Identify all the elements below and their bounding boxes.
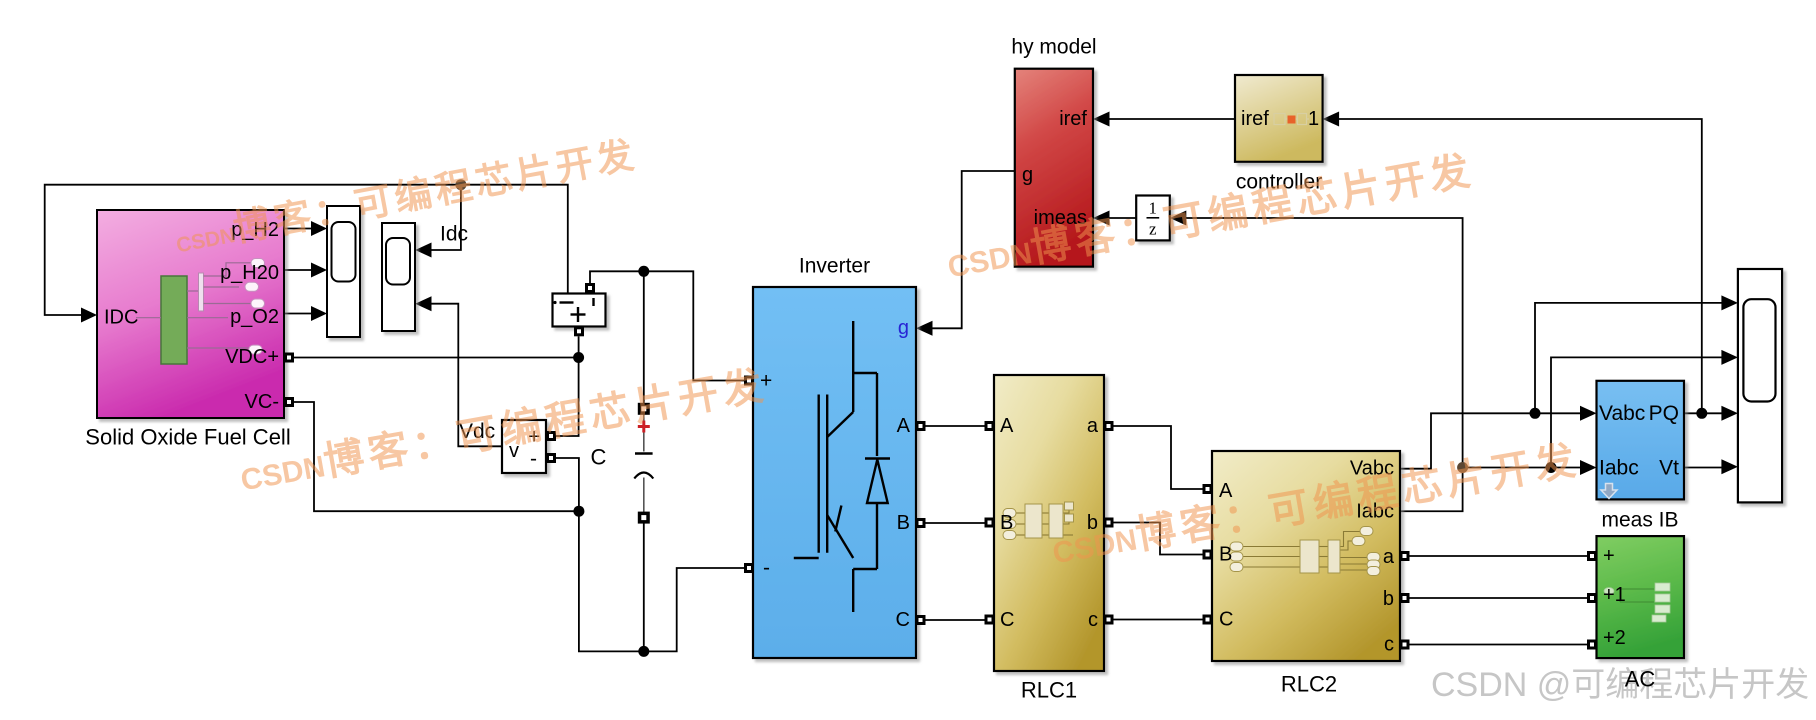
ammeter body bbox=[553, 294, 606, 327]
port RLC2 A bbox=[1203, 484, 1213, 494]
node Idc junction bbox=[455, 179, 466, 190]
wire PQ to scope bbox=[1684, 412, 1722, 414]
ammeter icon bbox=[560, 298, 594, 322]
RLC2 icon bbox=[1230, 527, 1380, 576]
watermark D bbox=[1049, 440, 1584, 574]
wire p_H20 bbox=[284, 269, 312, 271]
scope3 screen bbox=[1743, 299, 1775, 401]
wire Vabc to scope bbox=[1535, 303, 1722, 413]
wire Iabc to scope bbox=[1551, 357, 1722, 467]
arrow scope1 in1 bbox=[311, 221, 327, 236]
node Iabc junction 1 bbox=[1457, 462, 1468, 473]
arrow meas Iabc bbox=[1580, 460, 1597, 475]
svg-text:-: - bbox=[763, 557, 770, 580]
port RLC1 B bbox=[985, 518, 995, 528]
meas IB block body bbox=[1597, 381, 1685, 500]
arrow meas Vabc bbox=[1580, 406, 1597, 421]
port RLC1 A bbox=[985, 421, 995, 431]
svg-text:B: B bbox=[897, 512, 910, 534]
svg-text:RLC1: RLC1 bbox=[1021, 678, 1077, 703]
wire VC- bbox=[284, 402, 579, 511]
svg-text:C: C bbox=[896, 609, 910, 631]
wire DC minus rail bbox=[579, 511, 745, 651]
controller icon bbox=[1274, 114, 1309, 125]
svg-text:b: b bbox=[1383, 588, 1394, 610]
controller block body bbox=[1235, 75, 1323, 162]
wire capacitor bottom bbox=[643, 523, 645, 652]
wire Idc feedback loop bbox=[45, 185, 568, 315]
svg-text:+: + bbox=[1603, 545, 1615, 567]
svg-text:VC-: VC- bbox=[245, 391, 279, 413]
port RLC1 C bbox=[985, 615, 995, 625]
svg-text:+2: +2 bbox=[1603, 627, 1626, 649]
capacitor stem bottom bbox=[643, 478, 645, 518]
port AC plus2 bbox=[1587, 640, 1597, 650]
svg-text:AC: AC bbox=[1625, 667, 1656, 692]
port Vdc minus bbox=[546, 453, 556, 463]
svg-text:B: B bbox=[1000, 512, 1013, 534]
RLC1 icon bbox=[1003, 502, 1074, 540]
wire inverter A to RLC1 A bbox=[926, 425, 985, 427]
wire RLC1 b to RLC2 B bbox=[1114, 523, 1203, 555]
svg-text:Vt: Vt bbox=[1659, 457, 1679, 480]
scope1 screen bbox=[332, 222, 356, 282]
fuel cell pill p_H2 bbox=[251, 259, 265, 268]
wire VDC+ bbox=[284, 357, 579, 359]
svg-text:p_O2: p_O2 bbox=[230, 306, 279, 328]
wire DC plus rail bbox=[590, 271, 745, 380]
port capacitor bottom bbox=[638, 512, 650, 524]
fuel cell pill VDC bbox=[249, 345, 263, 354]
wire PQ to controller bbox=[1339, 119, 1702, 413]
RLC1 block body bbox=[994, 375, 1104, 671]
port RLC1 b bbox=[1104, 518, 1114, 528]
svg-text:C: C bbox=[591, 445, 607, 470]
svg-text:-: - bbox=[530, 448, 537, 471]
arrow scope1 in3 bbox=[311, 306, 327, 321]
wire Vt to scope bbox=[1684, 467, 1722, 469]
node DC- junction bbox=[638, 646, 649, 657]
svg-text:Inverter: Inverter bbox=[799, 255, 870, 278]
node Iabc junction 2 bbox=[1546, 462, 1557, 473]
arrow display Idc bbox=[415, 243, 431, 258]
arrow scope1 in2 bbox=[311, 263, 327, 278]
port RLC2 a bbox=[1400, 551, 1410, 561]
capacitor stem top bbox=[643, 409, 645, 452]
svg-text:Iabc: Iabc bbox=[1599, 457, 1639, 480]
svg-text:C: C bbox=[1219, 609, 1233, 631]
wire Vdc minus bbox=[556, 458, 579, 511]
port inverter C bbox=[916, 615, 926, 625]
wire Vabc to meas bbox=[1400, 413, 1581, 468]
port RLC1 a bbox=[1104, 421, 1114, 431]
RLC2 block body bbox=[1212, 451, 1400, 661]
svg-text:+1: +1 bbox=[1603, 584, 1626, 606]
scope3 body bbox=[1738, 269, 1782, 502]
ammeter icon dot bbox=[553, 301, 556, 304]
watermark C bbox=[944, 150, 1478, 288]
wire inverter C to RLC1 C bbox=[926, 619, 985, 621]
port ammeter bottom bbox=[574, 326, 584, 336]
wire Vdc plus tap bbox=[556, 358, 579, 437]
svg-text:iref: iref bbox=[1241, 108, 1269, 130]
wire capacitor top bbox=[643, 271, 645, 404]
svg-text:A: A bbox=[1000, 415, 1014, 437]
svg-text:RLC2: RLC2 bbox=[1281, 672, 1337, 697]
watermark A bbox=[172, 136, 641, 265]
svg-text:Vabc: Vabc bbox=[1599, 402, 1645, 425]
unit delay block body bbox=[1136, 196, 1170, 241]
node Vabc junction bbox=[1530, 408, 1541, 419]
svg-text:IDC: IDC bbox=[104, 307, 138, 329]
port RLC1 c bbox=[1104, 615, 1114, 625]
port inverter B bbox=[916, 518, 926, 528]
meas IB down arrow icon bbox=[1601, 484, 1617, 499]
port inverter minus bbox=[744, 563, 754, 573]
arrow hy imeas bbox=[1093, 211, 1110, 226]
port AC plus1 bbox=[1587, 593, 1597, 603]
svg-text:VDC+: VDC+ bbox=[225, 346, 279, 368]
svg-text:Idc: Idc bbox=[440, 223, 468, 246]
capacitor top plate bbox=[635, 452, 653, 454]
watermark B bbox=[237, 365, 772, 501]
wire RLC2 b to AC bbox=[1409, 597, 1588, 599]
node DC+ junction bbox=[638, 266, 649, 277]
port inverter plus bbox=[744, 376, 754, 386]
scope2 body bbox=[382, 223, 415, 331]
port ammeter top bbox=[585, 283, 595, 293]
svg-text:c: c bbox=[1088, 609, 1098, 631]
capacitor bottom plate bbox=[634, 473, 653, 479]
svg-text:B: B bbox=[1219, 544, 1232, 566]
svg-text:g: g bbox=[1022, 164, 1033, 186]
arrow scope3 in4 bbox=[1721, 459, 1738, 474]
svg-text:Solid Oxide Fuel Cell: Solid Oxide Fuel Cell bbox=[85, 425, 290, 450]
port capacitor top bbox=[638, 403, 650, 415]
svg-text:1: 1 bbox=[1308, 108, 1319, 130]
wire p_H2 bbox=[284, 228, 312, 230]
node VDC+ junction bbox=[573, 352, 584, 363]
port Vdc plus bbox=[546, 431, 556, 441]
arrow unit delay in bbox=[1170, 211, 1187, 226]
port fuel cell VDC+ bbox=[284, 353, 294, 363]
unit delay bar bbox=[1147, 217, 1160, 219]
fuel cell inner link lines bbox=[136, 263, 251, 348]
arrow into IDC bbox=[81, 308, 97, 323]
wire controller to iref bbox=[1110, 118, 1236, 120]
port RLC2 B bbox=[1203, 550, 1213, 560]
svg-text:iref: iref bbox=[1059, 108, 1087, 130]
wire p_O2 bbox=[284, 313, 312, 315]
fuel cell inner green stack bbox=[161, 276, 187, 364]
wire RLC2 a to AC bbox=[1409, 555, 1588, 557]
svg-text:a: a bbox=[1383, 546, 1395, 568]
arrow scope3 in1 bbox=[1721, 295, 1738, 310]
svg-text:c: c bbox=[1384, 634, 1394, 656]
wire RLC1 c to RLC2 C bbox=[1114, 619, 1203, 621]
wire Iabc to unit delay bbox=[1186, 218, 1463, 511]
port RLC2 c bbox=[1400, 640, 1410, 650]
scope1 body bbox=[327, 206, 360, 337]
wire g pulse bbox=[932, 171, 1015, 328]
wire RLC2 c to AC bbox=[1409, 644, 1588, 646]
svg-text:p_H20: p_H20 bbox=[220, 262, 279, 284]
wire Idc tap to display bbox=[432, 185, 461, 250]
fuel cell pill p_H20 bbox=[245, 282, 259, 291]
port RLC2 b bbox=[1400, 593, 1410, 603]
wire unit delay to imeas bbox=[1110, 217, 1137, 219]
arrow scope3 in2 bbox=[1721, 350, 1738, 365]
fuel cell pill p_O2 bbox=[251, 299, 265, 308]
fuel cell inner manifold bar bbox=[199, 273, 204, 311]
svg-text:g: g bbox=[898, 317, 909, 339]
fuel cell block body bbox=[97, 210, 284, 418]
node VC- junction bbox=[573, 506, 584, 517]
inverter block body bbox=[753, 287, 916, 658]
wire Iabc to meas bbox=[1463, 467, 1581, 469]
arrow inverter g bbox=[916, 321, 933, 336]
wire ammeter bottom bbox=[578, 336, 580, 357]
svg-text:hy model: hy model bbox=[1011, 36, 1096, 59]
scope2 screen bbox=[386, 238, 410, 285]
svg-text:a: a bbox=[1087, 415, 1099, 437]
wire inverter B to RLC1 B bbox=[926, 522, 985, 524]
svg-text:A: A bbox=[897, 415, 911, 437]
arrow hy iref bbox=[1093, 112, 1110, 127]
arrow scope3 in3 bbox=[1721, 406, 1738, 421]
svg-text:meas IB: meas IB bbox=[1601, 509, 1678, 532]
node PQ junction bbox=[1696, 408, 1707, 419]
port inverter A bbox=[916, 421, 926, 431]
port fuel cell VC- bbox=[284, 397, 294, 407]
AC icon bbox=[1604, 583, 1670, 622]
AC block body bbox=[1597, 536, 1685, 658]
svg-text:PQ: PQ bbox=[1649, 402, 1679, 425]
port RLC2 C bbox=[1203, 615, 1213, 625]
hy model block body bbox=[1015, 69, 1093, 267]
wire Vdc output to display bbox=[432, 304, 503, 447]
credit bbox=[1431, 668, 1809, 702]
port AC plus bbox=[1587, 551, 1597, 561]
arrow display Vdc bbox=[415, 296, 431, 311]
capacitor plus mark bbox=[638, 421, 650, 433]
inverter IGBT icon bbox=[794, 321, 890, 612]
ARROWHEADS bbox=[81, 112, 1738, 476]
arrow controller in bbox=[1323, 112, 1340, 127]
voltmeter Vdc body bbox=[502, 420, 546, 473]
svg-text:C: C bbox=[1000, 609, 1014, 631]
wire RLC1 a to RLC2 A bbox=[1114, 426, 1203, 489]
